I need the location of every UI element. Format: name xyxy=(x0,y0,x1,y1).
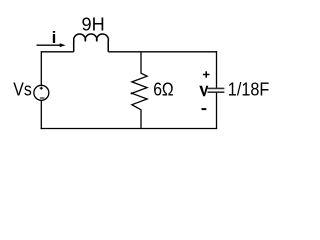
capacitor plates 1/18F xyxy=(208,87,225,89)
wire right vertical upper (top rail to capacitor) xyxy=(216,51,218,88)
svg-text:Vs: Vs xyxy=(13,80,32,100)
wire left vertical lower (source circle to bottom rail) xyxy=(40,101,42,130)
wire top rail (inductor to top-right corner) xyxy=(108,51,217,53)
voltage source Vs circle xyxy=(34,85,49,100)
wire right vertical lower (capacitor to bottom rail) xyxy=(216,93,218,129)
plus sign inside source xyxy=(40,87,43,90)
wire top-left horizontal (source top to inductor) xyxy=(41,51,73,53)
svg-text:i: i xyxy=(52,28,57,47)
wire left vertical upper (top rail down to source circle) xyxy=(40,51,42,85)
bottom rail wire xyxy=(41,128,218,130)
resistor branch: top lead, zigzag, bottom lead xyxy=(132,52,147,129)
minus sign inside source xyxy=(40,97,44,99)
junction blob on resistor left peak xyxy=(131,92,133,94)
current arrow i xyxy=(37,44,61,46)
plus polarity label xyxy=(203,71,210,78)
minus polarity label xyxy=(202,108,207,110)
inductor 9H xyxy=(74,34,109,52)
svg-text:9H: 9H xyxy=(82,15,105,35)
label v (capacitor voltage) xyxy=(199,86,208,97)
svg-text:6Ω: 6Ω xyxy=(153,80,174,100)
svg-text:1/18F: 1/18F xyxy=(228,80,270,100)
